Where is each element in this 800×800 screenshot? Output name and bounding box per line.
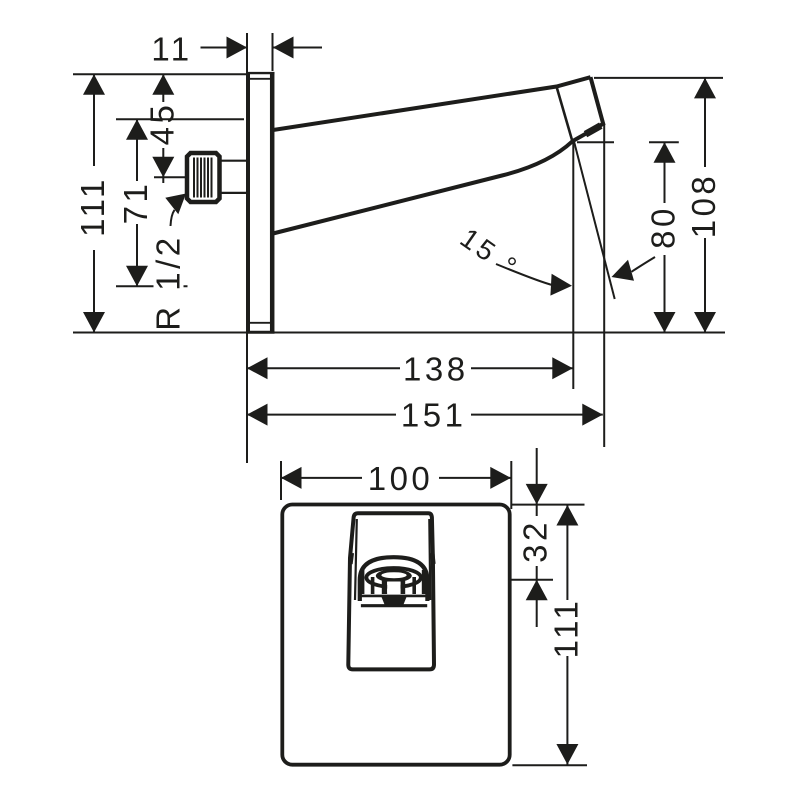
svg-text:138: 138 [403, 350, 469, 387]
leader 15 degrees right arc [632, 257, 656, 272]
outlet lip accent [586, 126, 601, 135]
extension line front plate top right [512, 504, 585, 506]
extension line front plate bottom [512, 764, 587, 766]
dimension 11 [201, 47, 323, 49]
dimension 45 [162, 74, 164, 183]
extension line outlet lip level [577, 141, 679, 143]
extension line y119 [116, 118, 244, 120]
dimension 32 [536, 448, 538, 627]
dimension 138 [247, 367, 573, 369]
svg-text:100: 100 [368, 460, 434, 497]
side edge notches [350, 553, 433, 564]
svg-text:R 1/2: R 1/2 [150, 234, 187, 330]
aerator white slit [381, 572, 406, 578]
aerator dark ellipse [376, 569, 412, 582]
svg-text:111: 111 [74, 176, 111, 237]
svg-text:151: 151 [401, 397, 467, 434]
extension line wall front face [272, 33, 274, 71]
svg-text:71: 71 [117, 181, 154, 225]
svg-text:11: 11 [151, 31, 192, 68]
threaded connector R1/2 [187, 153, 220, 202]
svg-text:111: 111 [547, 598, 584, 659]
dimension 111 side [93, 74, 95, 332]
line outlet axis 15 degrees [574, 141, 615, 299]
dimension 151 [247, 414, 603, 416]
leader aerator level [424, 579, 553, 581]
extension line baseline [73, 332, 725, 334]
escutcheon plate front view [282, 505, 509, 765]
aerator hood arch [360, 557, 428, 601]
leader 15 degrees left arc [496, 264, 553, 285]
aerator teeth [360, 570, 427, 594]
extension line wall back face [246, 33, 248, 463]
connector nipple [221, 161, 249, 193]
aerator center square [387, 582, 400, 593]
aerator chin line [362, 595, 427, 598]
extension line spout tip top level [594, 77, 723, 79]
extension line front right [510, 461, 512, 509]
wall plate side view [248, 72, 275, 334]
dimension 71 [136, 119, 138, 286]
dimension 100 [281, 477, 511, 479]
aerator tab [382, 597, 407, 605]
aerator outer ring [366, 568, 420, 587]
leader R1/2 [171, 210, 175, 226]
spout body side view [273, 77, 603, 233]
spout front view silhouette [348, 513, 434, 669]
dimension 80 [664, 142, 666, 332]
aerator lower line [361, 604, 427, 607]
extension line thread centerline [154, 176, 186, 178]
extension line front left [281, 448, 587, 765]
svg-text:80: 80 [645, 205, 682, 249]
spout front inner side lines [355, 519, 430, 600]
extension line outlet vertical [572, 141, 574, 389]
extension line y286 [116, 285, 188, 287]
dimension 111 front [566, 505, 568, 765]
extension line nose tip vertical [603, 124, 605, 447]
svg-text:108: 108 [685, 173, 722, 239]
svg-text:15 °: 15 ° [455, 222, 525, 284]
dimension 108 [704, 78, 706, 333]
extension line plate top level [73, 73, 246, 75]
svg-text:32: 32 [517, 519, 554, 563]
svg-text:45: 45 [143, 102, 180, 146]
